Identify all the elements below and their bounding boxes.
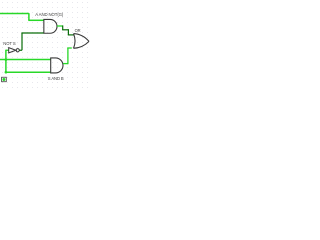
junction node S [5, 58, 8, 61]
input pin P1 [2, 77, 7, 81]
wire B horizontal to S AND B bottom input [6, 71, 51, 73]
or-gate U3 [74, 34, 90, 49]
svg-text:NOT S: NOT S [3, 41, 16, 46]
wire S horizontal to S AND B top input [0, 59, 51, 61]
wire AND1 staircase down 1 [62, 25, 64, 29]
wire S AND B output stub [63, 63, 68, 65]
wire A input top horizontal [0, 13, 29, 15]
svg-text:A AND NOT(G): A AND NOT(G) [35, 12, 64, 17]
not-gate U2 triangle [9, 48, 16, 53]
not-gate U2 bubble [16, 49, 19, 52]
and-gate U1 A AND NOT(G) [44, 19, 57, 33]
wire NOT output vertical up [21, 33, 23, 50]
wire A corner vertical [28, 13, 30, 20]
wire AND1 staircase down 2 [67, 29, 69, 35]
wire NOT output stub [19, 49, 22, 51]
not-gate U2 NOT S input stub [6, 49, 9, 51]
wire AND1 output stub [57, 25, 63, 27]
wire NOT output to AND1 bottom input [21, 32, 43, 34]
wire to OR top input [68, 34, 75, 36]
and-gate U4 S AND B [51, 58, 63, 73]
svg-text:S AND B: S AND B [48, 76, 64, 81]
wire S AND B staircase vertical up [67, 48, 69, 64]
junction node B [5, 71, 8, 74]
wire S vertical from NOT input down [5, 50, 7, 73]
input pin P1 state dot [2, 78, 5, 81]
svg-text:OR: OR [75, 28, 81, 33]
wire A to AND1 top input [28, 19, 43, 21]
wire to OR bottom input [67, 47, 72, 49]
wire AND1 staircase right 1 [62, 29, 68, 31]
